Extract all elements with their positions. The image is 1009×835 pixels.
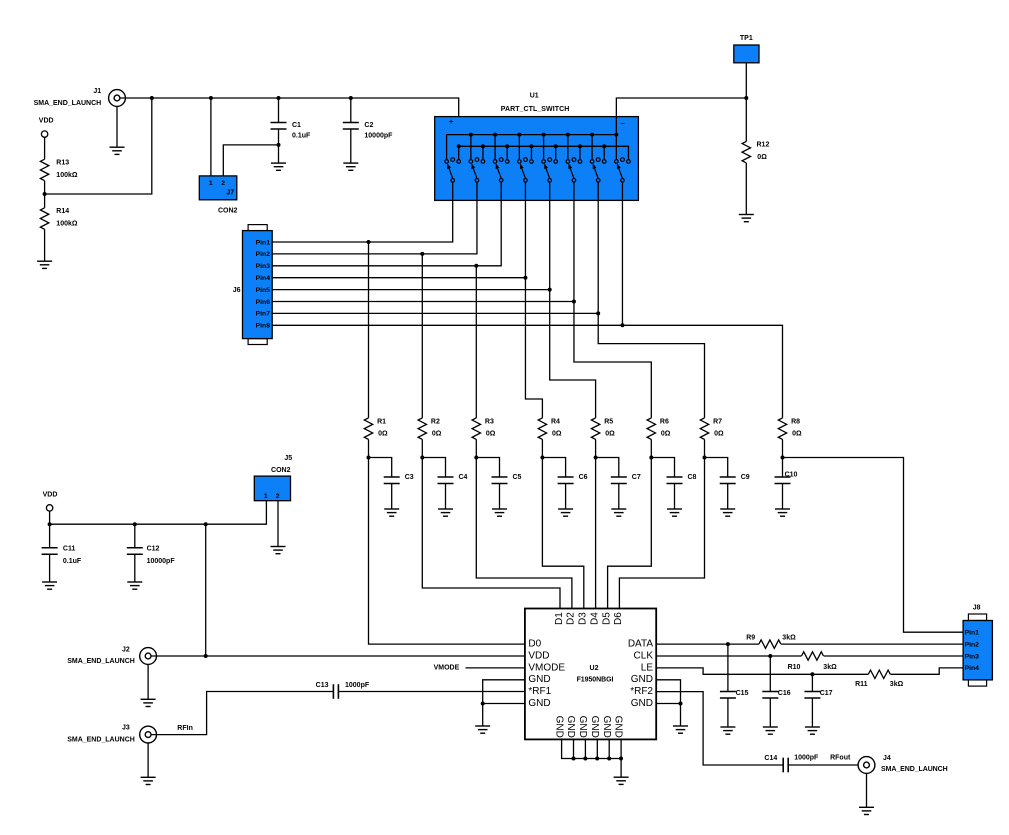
wire Pin2 drop to R2 bbox=[421, 254, 423, 418]
svg-text:R4: R4 bbox=[551, 418, 560, 425]
svg-text:J4: J4 bbox=[883, 755, 891, 762]
svg-text:GND: GND bbox=[601, 716, 612, 738]
svg-text:C8: C8 bbox=[688, 474, 697, 481]
wire U2 right GND pin 1 bbox=[656, 680, 680, 704]
wire U2 RF2 to C14 bbox=[656, 692, 783, 765]
svg-text:J5: J5 bbox=[284, 455, 292, 462]
node R7/C9 junction bbox=[703, 456, 707, 460]
svg-text:U2: U2 bbox=[590, 665, 599, 672]
svg-text:1: 1 bbox=[264, 493, 268, 500]
wire R5 to C7 junction bbox=[595, 439, 597, 457]
node Pin5 junction bbox=[548, 288, 552, 292]
capacitor C5 bbox=[492, 474, 522, 509]
ground below C1 bbox=[271, 163, 286, 170]
svg-text:100kΩ: 100kΩ bbox=[56, 172, 78, 179]
wire J1 to ground bbox=[116, 106, 118, 147]
node VDD (top-left supply) bbox=[39, 118, 54, 138]
node R3/C5 junction bbox=[474, 456, 478, 460]
connector J7 CON2 bbox=[199, 176, 237, 215]
svg-text:Pin2: Pin2 bbox=[965, 641, 980, 648]
svg-text:C3: C3 bbox=[405, 474, 414, 481]
ground below R14 bbox=[37, 261, 52, 268]
capacitor C13 1000pF bbox=[316, 682, 370, 699]
svg-text:Pin1: Pin1 bbox=[256, 239, 271, 246]
connector J3 SMA_END_LAUNCH bbox=[67, 724, 156, 743]
svg-text:J1: J1 bbox=[93, 88, 101, 95]
svg-text:1000pF: 1000pF bbox=[794, 755, 819, 762]
wire R6 to C8 junction bbox=[650, 439, 652, 457]
svg-text:RFIn: RFIn bbox=[177, 725, 193, 732]
node bottom GND bus junction bbox=[595, 757, 599, 761]
wire R13 to R14 bbox=[44, 181, 46, 208]
svg-text:R12: R12 bbox=[757, 142, 770, 149]
U1 switch pole 4 bbox=[518, 158, 534, 182]
ground below C5 bbox=[492, 509, 507, 516]
IC U2 F1950NBGI body bbox=[525, 609, 656, 740]
node TP1/R12 junction bbox=[744, 96, 748, 100]
wire Pin1 drop to R1 bbox=[368, 242, 370, 418]
node U1 upper bus junction 2 bbox=[493, 133, 497, 137]
wire U2 DATA to J8 Pin2 bbox=[656, 643, 963, 645]
svg-text:0Ω: 0Ω bbox=[714, 431, 724, 438]
testpoint TP1 bbox=[734, 35, 759, 63]
wire R6 net to U2 D5 bbox=[608, 458, 652, 609]
wire J6 Pin6 net to U1 pole 6 bbox=[272, 301, 574, 303]
connector J4 SMA_END_LAUNCH bbox=[858, 755, 948, 773]
wire R8 to C10 junction bbox=[782, 439, 784, 457]
svg-text:0.1uF: 0.1uF bbox=[292, 132, 311, 139]
wire U1 bus drop to pole 3 right contact bbox=[506, 146, 508, 159]
wire U1 pole 8 down to Pin8 bbox=[621, 182, 623, 325]
ground below C11 bbox=[42, 582, 57, 589]
node U1 lower bus junction 2 bbox=[481, 144, 485, 148]
wire J6 Pin7 net to U1 pole 7 bbox=[272, 312, 598, 314]
svg-text:*RF1: *RF1 bbox=[528, 686, 551, 697]
svg-text:GND: GND bbox=[528, 698, 550, 709]
svg-text:C13: C13 bbox=[316, 682, 329, 689]
svg-text:DATA: DATA bbox=[628, 639, 654, 650]
wire top rail J1 to U1 bbox=[120, 98, 459, 146]
capacitor C10 bbox=[775, 472, 798, 510]
node Pin3/R3 junction bbox=[474, 264, 478, 268]
node rail/C2 junction bbox=[349, 96, 353, 100]
wire junction to C6 bbox=[542, 458, 565, 478]
svg-text:R3: R3 bbox=[485, 418, 494, 425]
node J2/VDD junction bbox=[204, 654, 208, 658]
svg-text:TP1: TP1 bbox=[740, 35, 753, 42]
svg-text:2: 2 bbox=[276, 493, 280, 500]
wire U1 bus drop to pole 8 left contact bbox=[615, 135, 617, 160]
svg-text:0Ω: 0Ω bbox=[757, 154, 767, 161]
svg-text:Pin4: Pin4 bbox=[256, 275, 271, 282]
wire R3 to C5 junction bbox=[475, 439, 477, 457]
resistor R13 100k bbox=[40, 159, 77, 181]
node bottom GND bus junction bbox=[572, 757, 576, 761]
svg-text:Pin1: Pin1 bbox=[965, 630, 980, 637]
capacitor C4 bbox=[438, 474, 468, 509]
wire J2 to U2 VDD pin bbox=[151, 655, 525, 657]
node rail/J7 pin1 junction bbox=[209, 96, 213, 100]
wire U1 bus drop to pole 3 left contact bbox=[494, 135, 496, 160]
svg-text:R1: R1 bbox=[377, 418, 386, 425]
svg-text:CON2: CON2 bbox=[218, 207, 238, 214]
node DATA/C15 junction bbox=[726, 642, 730, 646]
svg-text:C2: C2 bbox=[364, 122, 373, 129]
svg-text:C12: C12 bbox=[147, 545, 160, 552]
wire Pin3 drop to R3 bbox=[475, 266, 477, 418]
node VDD drop junction bbox=[204, 522, 208, 526]
connector J5 CON2 bbox=[254, 455, 292, 501]
svg-text:R6: R6 bbox=[660, 418, 669, 425]
node Pin1/R1 junction bbox=[367, 240, 371, 244]
svg-text:C7: C7 bbox=[632, 474, 641, 481]
resistor R4 0ohm bbox=[538, 418, 562, 440]
svg-text:CON2: CON2 bbox=[271, 467, 291, 474]
wire U2 CLK to J8 Pin3 bbox=[656, 655, 963, 657]
node Pin4 junction bbox=[523, 276, 527, 280]
svg-text:J7: J7 bbox=[226, 189, 234, 196]
node R5/C7 junction bbox=[594, 456, 598, 460]
wire J6 Pin8 net to R8 bbox=[272, 325, 782, 418]
svg-text:J8: J8 bbox=[973, 604, 981, 611]
wire junction to C8 bbox=[651, 458, 674, 478]
wire R1 to C3 junction bbox=[368, 439, 370, 457]
node bottom GND bus junction bbox=[583, 757, 587, 761]
wire J6 Pin5 net to U1 pole 5 bbox=[272, 289, 550, 291]
svg-text:SMA_END_LAUNCH: SMA_END_LAUNCH bbox=[67, 658, 135, 665]
wire right GND to ground bbox=[680, 704, 682, 727]
wire U2 left GND pin 1 bbox=[483, 680, 525, 704]
node R13/R14 junction bbox=[43, 192, 47, 196]
wire R3 net to U2 D2 bbox=[476, 458, 572, 609]
wire J6 Pin2 net to U1 pole 2 bbox=[272, 182, 477, 254]
ground below U2 bbox=[614, 777, 629, 784]
ground below C8 bbox=[667, 509, 682, 516]
capacitor C15 bbox=[720, 644, 749, 727]
node LE/C17 junction bbox=[810, 672, 814, 676]
svg-text:D1: D1 bbox=[554, 612, 565, 625]
wire R2 to C4 junction bbox=[421, 439, 423, 457]
node Pin7 junction bbox=[596, 311, 600, 315]
wire U1 pole 7 through Pin7 down to R7 bbox=[598, 182, 704, 418]
resistor R2 0ohm bbox=[418, 418, 442, 440]
svg-text:C15: C15 bbox=[736, 690, 749, 697]
capacitor C17 bbox=[804, 674, 832, 727]
U1 switch pole 1 bbox=[445, 158, 461, 182]
wire junction to C3 bbox=[369, 458, 392, 478]
wire junction to C10 bbox=[782, 458, 784, 478]
wire C14 to J4 bbox=[788, 764, 863, 766]
ground below C6 bbox=[558, 509, 573, 516]
node Pin2/R2 junction bbox=[420, 252, 424, 256]
node CLK/C16 junction bbox=[768, 654, 772, 658]
wire R5 net to U2 D4 bbox=[595, 458, 597, 609]
svg-text:100kΩ: 100kΩ bbox=[56, 220, 78, 227]
wire J3 to ground bbox=[147, 743, 149, 777]
node R8/C10 junction bbox=[781, 456, 785, 460]
wire U1 bus drop to pole 5 left contact bbox=[543, 135, 545, 160]
node U1 upper bus junction 4 bbox=[542, 133, 546, 137]
node U1 lower bus junction 4 bbox=[529, 144, 533, 148]
svg-text:GND: GND bbox=[528, 674, 550, 685]
capacitor C8 bbox=[667, 474, 697, 509]
capacitor C6 bbox=[558, 474, 588, 509]
connector J2 SMA_END_LAUNCH bbox=[67, 646, 156, 665]
capacitor C12 10000pF bbox=[127, 524, 176, 582]
svg-text:R13: R13 bbox=[56, 159, 69, 166]
svg-text:SMA_END_LAUNCH: SMA_END_LAUNCH bbox=[67, 736, 135, 743]
wire R4 to C6 junction bbox=[541, 439, 543, 457]
ground below C3 bbox=[384, 509, 399, 516]
resistor R7 0ohm bbox=[700, 418, 724, 440]
wire J5 pin2 to ground bbox=[277, 501, 279, 547]
capacitor C3 bbox=[384, 474, 414, 509]
capacitor C1 0.1uF bbox=[271, 98, 312, 163]
svg-text:0Ω: 0Ω bbox=[605, 431, 615, 438]
svg-text:1: 1 bbox=[209, 180, 213, 187]
node U1 upper bus junction 6 bbox=[590, 133, 594, 137]
wire junction to C7 bbox=[596, 458, 619, 478]
svg-text:C9: C9 bbox=[741, 474, 750, 481]
ground below C16 bbox=[763, 727, 778, 734]
svg-text:Pin2: Pin2 bbox=[256, 251, 271, 258]
svg-text:D6: D6 bbox=[613, 612, 624, 625]
wire U2 right GND pin 2 bbox=[656, 703, 680, 705]
capacitor C16 bbox=[762, 656, 790, 727]
svg-text:*RF2: *RF2 bbox=[630, 686, 653, 697]
wire R8 net to J8 Pin1 bbox=[783, 458, 964, 633]
ground below J5 bbox=[271, 547, 286, 554]
U1 switch pole 6 bbox=[566, 158, 582, 182]
node U1 lower bus junction 5 bbox=[554, 144, 558, 148]
svg-text:GND: GND bbox=[631, 674, 653, 685]
svg-text:D3: D3 bbox=[578, 612, 589, 625]
svg-text:VDD: VDD bbox=[528, 650, 549, 661]
svg-text:R9: R9 bbox=[746, 635, 755, 642]
node U1 lower bus junction 6 bbox=[578, 144, 582, 148]
wire VMODE to U2 bbox=[466, 667, 525, 669]
resistor R8 0ohm bbox=[778, 418, 802, 440]
svg-text:10000pF: 10000pF bbox=[364, 132, 393, 139]
wire U2 bottom GND bus bbox=[562, 739, 622, 777]
svg-text:GND: GND bbox=[553, 716, 564, 738]
wire junction to C9 bbox=[705, 458, 728, 478]
ground at U2 right bbox=[673, 726, 688, 733]
ground below C15 bbox=[720, 727, 735, 734]
wire U1 pole 4 through Pin4 down to R4 bbox=[525, 182, 542, 418]
svg-text:U1: U1 bbox=[530, 93, 539, 100]
wire VDD bus bbox=[50, 501, 267, 525]
svg-text:VMODE: VMODE bbox=[434, 665, 460, 672]
svg-text:J3: J3 bbox=[122, 724, 130, 731]
wire J7 pin2 to C1 bbox=[223, 145, 278, 176]
wire left GND to ground bbox=[482, 704, 484, 727]
svg-text:Pin3: Pin3 bbox=[965, 653, 980, 660]
svg-text:LE: LE bbox=[641, 662, 654, 673]
node U1 lower bus junction 7 bbox=[602, 144, 606, 148]
svg-text:C11: C11 bbox=[63, 545, 76, 552]
svg-text:SMA_END_LAUNCH: SMA_END_LAUNCH bbox=[34, 100, 102, 107]
wire U1 bus drop to pole 4 right contact bbox=[530, 146, 532, 159]
ground below J1 bbox=[110, 147, 125, 154]
svg-text:0Ω: 0Ω bbox=[432, 431, 442, 438]
wire U1 pole 5 through Pin5 down to R5 bbox=[550, 182, 596, 418]
wire C13 to U2 RF1 bbox=[338, 691, 525, 693]
wire U1 bus drop to pole 2 left contact bbox=[470, 135, 472, 160]
connector J6 header body bbox=[233, 225, 272, 345]
svg-text:VDD: VDD bbox=[39, 118, 54, 125]
svg-text:C1: C1 bbox=[292, 122, 301, 129]
wire R12 to ground bbox=[745, 163, 747, 215]
wire U1 bus drop to pole 2 right contact bbox=[482, 146, 484, 159]
node bottom GND bus junction bbox=[619, 757, 623, 761]
switch U1 PART_CTL_SWITCH body bbox=[435, 93, 639, 201]
svg-text:D4: D4 bbox=[589, 612, 600, 625]
wire VDD to R13 bbox=[44, 137, 46, 159]
svg-text:10000pF: 10000pF bbox=[147, 558, 176, 565]
ground below J4 bbox=[859, 807, 874, 814]
ground below R12 bbox=[739, 215, 754, 222]
svg-text:Pin3: Pin3 bbox=[256, 263, 271, 270]
node R1/C3 junction bbox=[367, 456, 371, 460]
capacitor C2 10000pF bbox=[343, 98, 393, 163]
U1 switch pole 5 bbox=[542, 158, 558, 182]
node R2/C4 junction bbox=[420, 456, 424, 460]
node right GND junction bbox=[679, 702, 683, 706]
node rail/C1 junction bbox=[277, 96, 281, 100]
capacitor C11 0.1uF bbox=[42, 524, 82, 582]
connector J1 SMA_END_LAUNCH bbox=[34, 88, 126, 107]
capacitor C14 1000pF bbox=[764, 755, 819, 773]
resistor R1 0ohm bbox=[364, 418, 388, 440]
ground below J3 bbox=[141, 777, 156, 784]
svg-text:GND: GND bbox=[589, 716, 600, 738]
resistor R10 3k bbox=[788, 652, 837, 671]
resistor R11 3k bbox=[855, 670, 903, 688]
ground below C4 bbox=[438, 509, 453, 516]
resistor R14 100k bbox=[40, 208, 77, 230]
svg-text:R10: R10 bbox=[788, 664, 801, 671]
U1 switch pole 7 bbox=[590, 158, 606, 182]
wire junction to J1 net bbox=[45, 98, 152, 194]
node bottom GND bus junction bbox=[607, 757, 611, 761]
node Pin8 junction bbox=[620, 323, 624, 327]
wire junction to C4 bbox=[422, 458, 445, 478]
wire U1 upper bus (minus rail to TP1) bbox=[447, 98, 747, 160]
node C12 junction bbox=[133, 522, 137, 526]
node U1 upper bus junction 1 bbox=[469, 133, 473, 137]
svg-text:+: + bbox=[449, 119, 453, 126]
U1 switch pole 2 bbox=[469, 158, 485, 182]
svg-text:VDD: VDD bbox=[43, 492, 58, 499]
ground below C10 bbox=[775, 509, 790, 516]
svg-text:Pin8: Pin8 bbox=[256, 323, 271, 330]
svg-text:GND: GND bbox=[613, 716, 624, 738]
wire R4 net to U2 D3 bbox=[542, 458, 583, 609]
node left GND junction bbox=[481, 702, 485, 706]
wire U1 lower bus (plus rail from J1) bbox=[459, 146, 629, 159]
wire U2 left GND pin 2 bbox=[483, 703, 525, 705]
wire J2 to ground bbox=[147, 664, 149, 699]
wire J6 Pin3 net to U1 pole 3 bbox=[272, 182, 501, 266]
svg-text:0Ω: 0Ω bbox=[486, 431, 496, 438]
node VDD/C11 junction bbox=[48, 522, 52, 526]
ground below C9 bbox=[720, 509, 735, 516]
svg-text:D2: D2 bbox=[566, 612, 577, 625]
resistor R3 0ohm bbox=[472, 418, 496, 440]
svg-text:C17: C17 bbox=[820, 690, 833, 697]
svg-text:GND: GND bbox=[577, 716, 588, 738]
svg-text:R8: R8 bbox=[791, 418, 800, 425]
wire junction to C5 bbox=[476, 458, 499, 478]
svg-text:RFout: RFout bbox=[830, 755, 851, 762]
svg-text:R14: R14 bbox=[56, 208, 69, 215]
wire J4 to ground bbox=[866, 773, 868, 807]
node C1/J7 pin2 junction bbox=[277, 143, 281, 147]
U1 switch pole 8 bbox=[615, 158, 631, 182]
node U1 lower bus junction 1 bbox=[457, 144, 461, 148]
wire R11 to J8 Pin4 bbox=[891, 668, 964, 674]
wire R1 net to U2 D0 bbox=[369, 458, 525, 645]
svg-text:C5: C5 bbox=[513, 474, 522, 481]
node R4/C6 junction bbox=[540, 456, 544, 460]
svg-text:0.1uF: 0.1uF bbox=[63, 558, 82, 565]
resistor R9 3k bbox=[746, 635, 796, 649]
svg-text:Pin7: Pin7 bbox=[256, 311, 271, 318]
svg-text:VMODE: VMODE bbox=[528, 662, 565, 673]
node rail/R13 junction bbox=[150, 96, 154, 100]
svg-text:R11: R11 bbox=[855, 681, 868, 688]
node U1 upper bus junction 3 bbox=[517, 133, 521, 137]
node Pin6 junction bbox=[572, 300, 576, 304]
wire R2 net to U2 D1 bbox=[422, 458, 560, 609]
svg-text:F1950NBGI: F1950NBGI bbox=[577, 676, 614, 683]
ground below C2 bbox=[343, 163, 358, 170]
wire VDD drop to U2 VDD bbox=[205, 524, 207, 656]
resistor R6 0ohm bbox=[647, 418, 671, 440]
ground below C17 bbox=[805, 727, 820, 734]
wire U1 bus drop to pole 7 right contact bbox=[603, 146, 605, 159]
wire rail to R12 bbox=[745, 98, 747, 141]
ground below C12 bbox=[127, 582, 142, 589]
node U1 upper bus junction 5 bbox=[566, 133, 570, 137]
svg-text:D0: D0 bbox=[528, 639, 541, 650]
svg-text:R7: R7 bbox=[713, 418, 722, 425]
connector J8 header body bbox=[963, 604, 992, 686]
wire U1 bus drop to pole 6 left contact bbox=[567, 135, 569, 160]
svg-text:Pin4: Pin4 bbox=[965, 665, 980, 672]
ground below C7 bbox=[611, 509, 626, 516]
svg-text:0Ω: 0Ω bbox=[792, 431, 802, 438]
wire U1 bus drop to pole 1 right contact bbox=[458, 146, 460, 159]
wire U1 pole 6 through Pin6 down to R6 bbox=[574, 182, 651, 418]
svg-text:R2: R2 bbox=[431, 418, 440, 425]
wire R7 net to U2 D6 bbox=[619, 458, 704, 609]
svg-text:0Ω: 0Ω bbox=[661, 431, 671, 438]
wire J6 Pin4 net to U1 pole 4 bbox=[272, 277, 525, 279]
svg-text:C16: C16 bbox=[778, 690, 791, 697]
node VDD (bottom-left supply) bbox=[43, 492, 58, 511]
svg-text:−: − bbox=[621, 121, 625, 128]
node R6/C8 junction bbox=[649, 456, 653, 460]
svg-text:CLK: CLK bbox=[634, 650, 654, 661]
U1 switch pole 3 bbox=[493, 158, 509, 182]
wire U1 bus drop to pole 6 right contact bbox=[579, 146, 581, 159]
capacitor C9 bbox=[720, 474, 750, 509]
wire U1 bus drop to pole 7 left contact bbox=[591, 135, 593, 160]
wire TP1 to rail bbox=[745, 63, 747, 98]
resistor R5 0ohm bbox=[591, 418, 615, 440]
